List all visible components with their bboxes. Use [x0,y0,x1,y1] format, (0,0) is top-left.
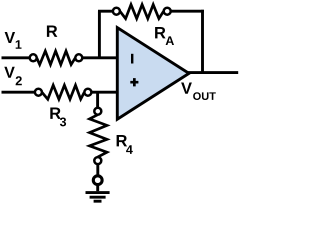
wire: feedback top left segment [98,10,113,13]
resistor R3 [35,85,92,99]
resistor R4 [90,108,108,164]
label R4 [117,135,133,154]
label V2 [4,67,22,86]
label RA [155,27,174,45]
resistor R [30,51,83,65]
node: junction wire V2 to R4 [96,93,99,108]
op-amp U1 [117,28,189,120]
non-inverting input marker (+) [130,78,138,86]
wire: output [188,71,238,74]
wire: feedback top right segment [171,10,204,13]
wire: V1 input to op-amp inverting input [2,56,118,59]
wire: feedback right vertical to output [201,10,204,73]
inverting input marker (-) [131,54,133,64]
label V1 [5,32,22,49]
wire: R4 to ground terminal [96,164,99,176]
wire: V2 input to op-amp non-inverting input [2,91,118,94]
resistor RA [113,5,171,19]
ground [86,176,110,201]
wire: feedback left vertical from inverting node [98,11,101,58]
label R [47,26,57,37]
label VOUT [181,82,216,100]
label R3 [50,108,66,127]
